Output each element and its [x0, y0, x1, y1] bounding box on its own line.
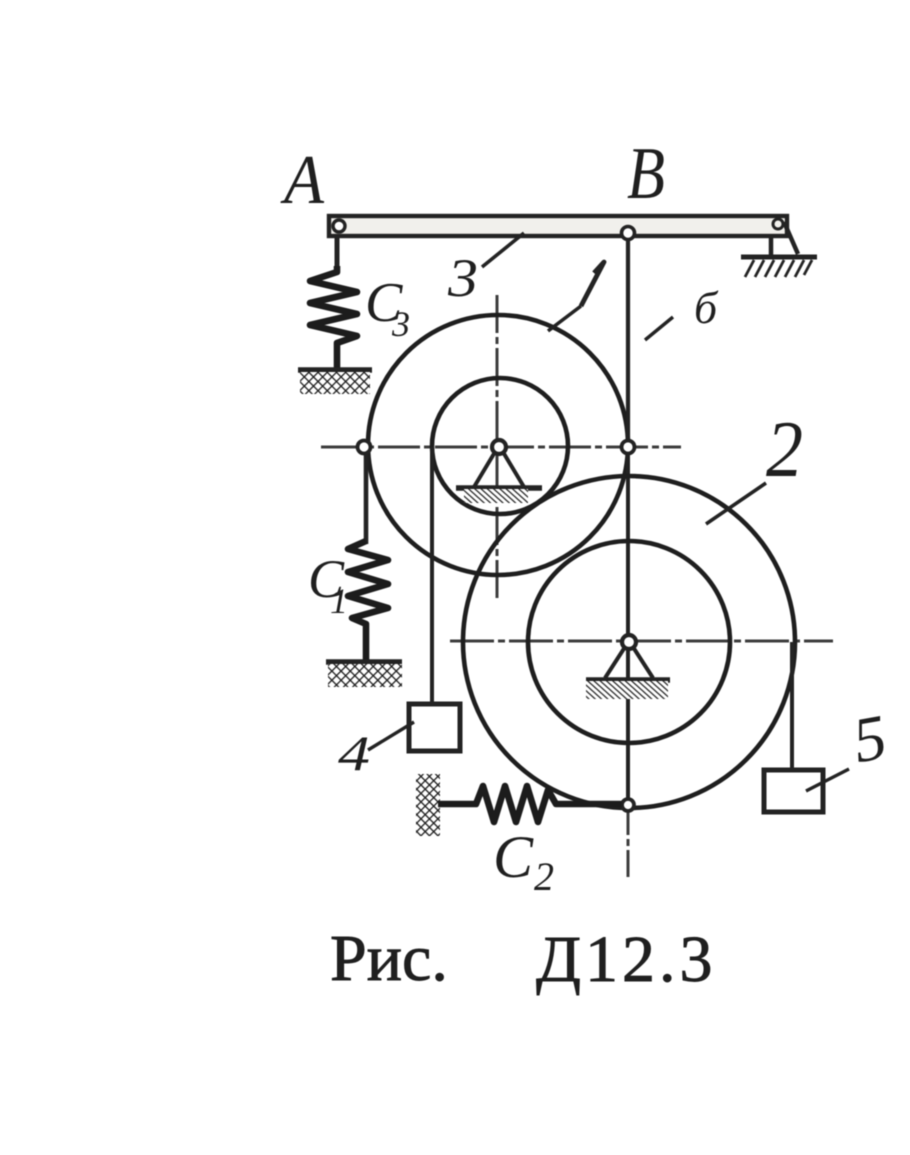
svg-text:В: В — [627, 133, 665, 215]
svg-text:A: A — [280, 142, 324, 219]
rope 6 from B to pulley 1 — [626, 239, 630, 447]
svg-text:1: 1 — [330, 581, 348, 621]
node right of pulley 1 — [622, 441, 635, 454]
label C1 — [308, 549, 348, 621]
spring C3 — [310, 266, 357, 370]
svg-text:3: 3 — [391, 304, 410, 344]
leader of label 6 — [645, 317, 673, 340]
svg-text:2: 2 — [534, 854, 554, 899]
label 1 — [581, 262, 604, 306]
node bottom of pulley 2 — [622, 799, 634, 811]
ground under C1 — [326, 662, 402, 687]
leader of label 3 — [482, 233, 524, 267]
ground under C3 — [298, 370, 372, 394]
pin at center of pulley 1 — [492, 440, 506, 454]
pulley 1 outer circle — [368, 315, 628, 575]
spring C2 — [438, 786, 622, 822]
rope from node to spring C1 — [364, 453, 369, 544]
pulley 2 inner circle — [528, 541, 730, 743]
pin B — [622, 227, 635, 240]
caption Рис. Д12.3 — [330, 922, 717, 996]
label C3 — [365, 272, 410, 344]
leader of label 1 — [548, 306, 581, 331]
axis rope from pulley1 right node through pulley 2 — [626, 453, 630, 877]
centerline vertical pulley 1 — [496, 295, 499, 600]
svg-text:4: 4 — [338, 725, 370, 781]
pulley 2 outer circle — [463, 476, 795, 808]
leader of label 5 — [806, 769, 849, 791]
spring C1 — [348, 541, 388, 662]
label B — [627, 133, 665, 215]
beam 3 (bar AB) — [329, 216, 787, 236]
svg-text:2: 2 — [766, 406, 803, 494]
block 5 — [764, 770, 823, 812]
centerline horizontal pulley 2 — [450, 640, 833, 643]
rope from pulley 2 to block 5 — [790, 642, 794, 770]
label 4 — [338, 725, 370, 781]
pin at center of pulley 2 — [622, 635, 636, 649]
label 6 — [694, 282, 719, 333]
svg-text:C: C — [493, 824, 534, 890]
label C2 — [493, 824, 554, 899]
rope from pulley 1 inner to block 4 — [430, 447, 434, 704]
label A — [280, 142, 324, 219]
wall for spring C2 — [416, 774, 440, 836]
label 2 — [766, 406, 803, 494]
svg-text:б: б — [694, 282, 719, 333]
node left of pulley 1 — [358, 441, 371, 454]
svg-text:Д12.3: Д12.3 — [536, 923, 717, 996]
label 3 — [447, 248, 478, 308]
leader of label 4 — [368, 722, 414, 750]
label 5 — [848, 701, 892, 776]
centerline horizontal pulley 1 — [321, 446, 681, 449]
svg-text:3: 3 — [447, 248, 478, 308]
support under pulley 2 center — [586, 647, 670, 699]
fixed pin support top right — [741, 219, 817, 277]
block 4 — [409, 704, 460, 751]
pin A — [333, 220, 345, 232]
pulley 1 inner circle — [432, 378, 568, 514]
svg-text:Рис.: Рис. — [330, 922, 448, 995]
leader of label 2 — [706, 483, 766, 524]
svg-text:5: 5 — [848, 701, 892, 776]
wire: hanger A to spring C3 — [335, 234, 340, 269]
support under pulley 1 center — [456, 452, 542, 503]
